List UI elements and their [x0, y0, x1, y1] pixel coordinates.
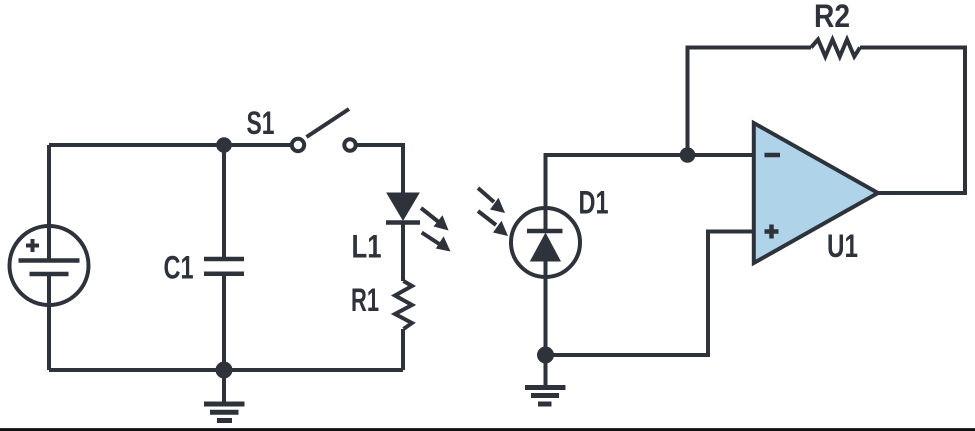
- LED L1 emission arrow 2: [422, 233, 451, 252]
- node junction top (C1/top rail): [216, 137, 232, 153]
- capacitor C1: [204, 259, 244, 274]
- photodiode D1 incoming arrow 1: [478, 188, 505, 213]
- svg-text:L1: L1: [352, 229, 382, 265]
- switch S1: [292, 109, 356, 151]
- photodiode D1 incoming arrow 2: [478, 211, 508, 236]
- wire C1 branch lower: [222, 275, 226, 370]
- wire ground node to op-amp plus input: [546, 232, 754, 356]
- battery source: [10, 226, 89, 305]
- wire left-circuit bottom rail: [49, 368, 403, 372]
- wire feedback right side: [860, 48, 965, 194]
- svg-text:S1: S1: [247, 105, 275, 141]
- wire R1 to bottom rail: [401, 329, 405, 370]
- wire left vertical (battery branch lower): [47, 274, 51, 370]
- wire C1 branch upper: [222, 145, 226, 258]
- ground (left circuit): [204, 370, 245, 421]
- bottom separator rule: [0, 428, 975, 431]
- svg-text:R1: R1: [351, 282, 379, 318]
- resistor R1: [395, 281, 412, 329]
- node junction bottom (C1/bottom rail): [216, 362, 233, 379]
- wire D1 top to op-amp minus input: [546, 155, 754, 231]
- node junction (minus input / feedback): [680, 147, 696, 163]
- LED L1 emission arrow 1: [421, 208, 449, 231]
- svg-text:D1: D1: [579, 185, 609, 221]
- node junction (D1 / ground / plus input): [537, 347, 554, 364]
- op-amp U1: [754, 123, 878, 263]
- wire switch to LED branch: [357, 145, 403, 193]
- svg-text:U1: U1: [827, 228, 858, 264]
- wire left-circuit top rail: [49, 143, 290, 147]
- svg-text:C1: C1: [164, 250, 194, 286]
- wire left vertical (battery branch upper): [47, 145, 51, 260]
- resistor R2: [811, 40, 860, 57]
- wire LED to R1: [401, 224, 405, 281]
- ground (right circuit): [525, 355, 566, 404]
- photodiode D1: [511, 208, 580, 277]
- wire feedback left vertical: [688, 48, 812, 156]
- LED L1: [386, 193, 420, 223]
- wire D1 bottom to ground node: [544, 260, 548, 355]
- svg-text:R2: R2: [814, 0, 850, 34]
